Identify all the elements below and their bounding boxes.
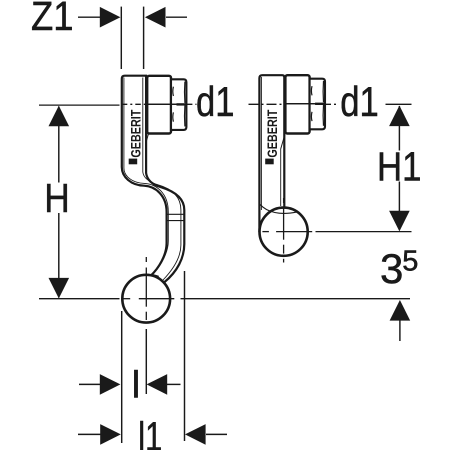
svg-text:GEBERIT: GEBERIT — [127, 109, 143, 157]
l stems — [79, 383, 100, 385]
H bottom reference + left circle horizontal centerline + 3-5 top reference — [39, 298, 120, 300]
l1 stems — [78, 433, 101, 435]
l/l1 left extension line — [121, 311, 123, 443]
svg-text:d1: d1 — [340, 78, 379, 125]
pipe-sphere junction curve right — [260, 204, 298, 213]
pipe inner highlight right edge — [143, 78, 181, 281]
hex nut right — [310, 79, 325, 130]
l arrows — [100, 374, 121, 395]
union nut body right — [285, 75, 309, 133]
hex facet arcs right — [310, 86, 313, 95]
right circle vertical centerline — [283, 198, 285, 203]
svg-text:Z1: Z1 — [31, 0, 74, 39]
svg-text:5: 5 — [402, 245, 418, 277]
l right extension line — [145, 329, 147, 394]
svg-text:GEBERIT: GEBERIT — [264, 109, 280, 157]
svg-text:l1: l1 — [138, 414, 162, 450]
svg-text:H1: H1 — [377, 144, 422, 190]
union nut body left — [147, 76, 171, 134]
svg-text:3: 3 — [380, 245, 403, 292]
hex facet arcs — [172, 87, 175, 96]
hex nut left — [171, 79, 186, 130]
hex middle line — [147, 103, 186, 105]
Z1 stems — [78, 16, 100, 18]
straight pipe right — [259, 75, 284, 231]
hex middle line right — [285, 103, 325, 105]
H1 arrows — [389, 106, 410, 127]
sphere joint circle left — [122, 275, 170, 323]
H dimension line — [58, 107, 60, 183]
3-5 arrow — [390, 300, 411, 321]
nut axis centerline + H top reference — [39, 104, 120, 106]
l1 right extension line — [184, 271, 186, 441]
Z1 extension lines — [120, 7, 122, 69]
svg-text:H: H — [44, 175, 70, 221]
right circle horizontal centerline + H1 bottom reference — [262, 231, 269, 233]
sphere joint circle right — [260, 208, 308, 256]
H arrows — [49, 106, 70, 127]
left circle vertical centerline — [145, 257, 147, 262]
pipe S-shape left — [122, 76, 185, 287]
chamfer below right nut — [281, 134, 285, 149]
Z1 arrows — [100, 7, 121, 28]
pipe highlights right — [260, 77, 262, 210]
svg-text:d1: d1 — [196, 78, 235, 125]
svg-text:l: l — [132, 365, 140, 407]
chamfer below nut — [146, 134, 148, 141]
3-5 stem — [399, 320, 401, 341]
GEBERIT logo right — [264, 109, 280, 164]
pipe inner highlight left edge — [124, 78, 168, 275]
pipe-sphere junction curve left — [146, 275, 159, 277]
joint lines on lower pipe section — [167, 213, 184, 215]
l1 arrows — [100, 424, 121, 445]
GEBERIT logo left — [127, 109, 143, 164]
H1 dimension line — [398, 106, 400, 151]
